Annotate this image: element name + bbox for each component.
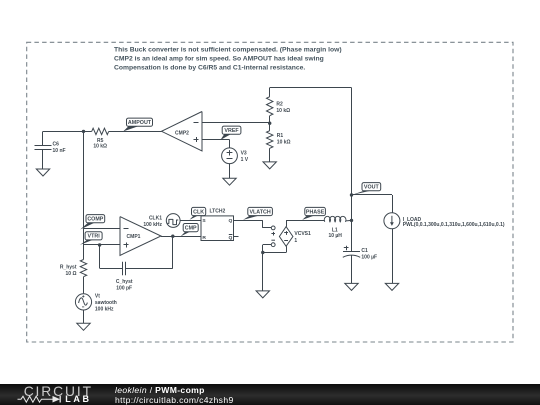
svg-text:VCVS1: VCVS1 <box>294 231 311 237</box>
svg-text:1: 1 <box>294 238 297 244</box>
svg-text:100 µF: 100 µF <box>361 254 377 260</box>
svg-text:R_hyst: R_hyst <box>60 265 77 271</box>
svg-text:100 kHz: 100 kHz <box>95 307 114 313</box>
svg-text:10 kΩ: 10 kΩ <box>276 108 290 114</box>
svg-text:PWL(0,0.1,300u,0.1,310u,1,600u: PWL(0,0.1,300u,0.1,310u,1,600u,1,610u,0.… <box>403 222 505 228</box>
svg-text:10 kΩ: 10 kΩ <box>93 143 107 149</box>
svg-text:Vt: Vt <box>95 294 100 300</box>
svg-text:Compensation is done by C6/R5: Compensation is done by C6/R5 and C1-int… <box>114 64 305 71</box>
svg-text:R2: R2 <box>276 102 283 108</box>
svg-text:V3: V3 <box>241 150 247 156</box>
svg-text:10 kΩ: 10 kΩ <box>277 140 291 146</box>
svg-text:CMP2 is an ideal amp for sim s: CMP2 is an ideal amp for sim speed. So A… <box>114 55 324 62</box>
svg-text:LTCH2: LTCH2 <box>210 208 226 214</box>
svg-text:This Buck converter is not suf: This Buck converter is not sufficient co… <box>114 46 342 53</box>
svg-text:VTRI: VTRI <box>88 234 101 240</box>
svg-text:Q: Q <box>228 235 232 241</box>
svg-text:sawtooth: sawtooth <box>95 300 117 306</box>
svg-text:R: R <box>202 235 206 241</box>
svg-text:CMP2: CMP2 <box>175 130 189 136</box>
svg-text:AMPOUT: AMPOUT <box>128 120 152 126</box>
svg-text:CLK1: CLK1 <box>149 216 162 222</box>
svg-text:CMP: CMP <box>185 226 197 232</box>
svg-text:100 kHz: 100 kHz <box>143 222 162 228</box>
svg-text:10 µH: 10 µH <box>328 233 342 239</box>
svg-text:C_hyst: C_hyst <box>116 279 133 285</box>
svg-text:VOUT: VOUT <box>364 185 380 191</box>
svg-text:10 Ω: 10 Ω <box>66 271 77 277</box>
svg-text:CLK: CLK <box>193 209 204 215</box>
svg-text:LAB: LAB <box>65 394 91 404</box>
svg-text:10 nF: 10 nF <box>53 148 66 154</box>
svg-text:1 V: 1 V <box>241 157 249 163</box>
svg-text:VLATCH: VLATCH <box>249 209 270 215</box>
svg-text:C6: C6 <box>53 141 60 147</box>
svg-text:R1: R1 <box>277 133 284 139</box>
svg-text:PHASE: PHASE <box>306 209 325 215</box>
svg-text:100 pF: 100 pF <box>116 286 132 292</box>
svg-text:CMP1: CMP1 <box>127 234 141 240</box>
svg-text:Q: Q <box>228 218 232 224</box>
svg-text:COMP: COMP <box>87 217 103 223</box>
svg-text:VREF: VREF <box>224 128 239 134</box>
svg-text:C1: C1 <box>361 248 368 254</box>
